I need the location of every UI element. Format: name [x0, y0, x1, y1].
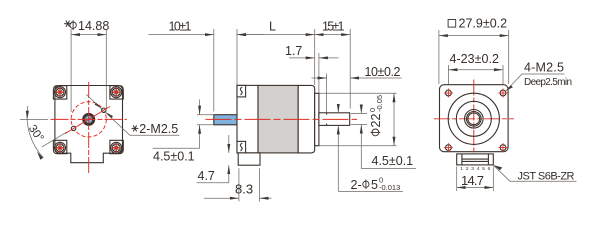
rear boss phi22 — [315, 93, 319, 145]
connector under flange (side view) — [238, 153, 260, 165]
dim 4-23 line — [448, 69, 503, 71]
screws (4x) — [55, 87, 66, 98]
arc arrowhead bottom — [37, 152, 43, 160]
svg-text:Deep2.5min: Deep2.5min — [524, 77, 572, 88]
svg-text:10±1: 10±1 — [169, 20, 192, 34]
dim 14.7 — [456, 167, 458, 192]
shaft blue circle — [85, 116, 93, 124]
red centerline middle — [206, 118, 358, 120]
screw top-right — [111, 87, 122, 98]
corner hole TL — [444, 89, 453, 98]
dim phi22 ext lines — [319, 92, 396, 94]
dim L (arrows inside) — [237, 34, 315, 36]
M2.5 hole lower left — [71, 126, 75, 130]
dim 4.7 vertical with outside arrows — [228, 135, 230, 153]
leader 4-M2.5 — [506, 74, 522, 91]
corner screw pocket BR — [110, 140, 123, 153]
black hole-line extension lower-left — [42, 132, 67, 147]
red hole centerline 31deg — [65, 107, 110, 134]
motor gray body — [258, 85, 298, 152]
label 2-phi5 0/-0.013 — [351, 176, 401, 193]
front shaft (blue) — [214, 115, 237, 125]
red centerline vertical right view — [473, 80, 475, 155]
svg-text:5: 5 — [371, 178, 378, 192]
dim 4-23 ext lines — [447, 65, 449, 89]
svg-text:JST S6B-ZR: JST S6B-ZR — [518, 170, 575, 182]
dim 10+-1 (arrows outside) — [149, 34, 214, 36]
leader line 2-M2.5 — [86, 94, 130, 135]
corner screw pocket BL — [53, 140, 66, 153]
svg-text:10±0.2: 10±0.2 — [365, 65, 401, 79]
top dimension extension lines — [213, 29, 215, 112]
angle reference horizontal line — [20, 118, 48, 120]
svg-text:4.5±0.1: 4.5±0.1 — [372, 154, 414, 168]
dim 2-phi5 leader — [337, 105, 339, 113]
dim 15+-1 (arrows inside) — [315, 34, 351, 36]
motor flange outline with connector protrusion — [55, 86, 123, 163]
dim phi22 vertical line inside arrows — [393, 93, 395, 145]
svg-text:L: L — [269, 20, 276, 34]
corner screw pocket TL — [53, 86, 66, 99]
leader arrowheads at hole — [95, 103, 102, 109]
svg-text:1.7: 1.7 — [285, 44, 302, 58]
svg-text:-0.05: -0.05 — [375, 95, 384, 112]
corner hole BL — [444, 143, 453, 152]
screw bottom-left — [55, 142, 66, 153]
svg-text:30°: 30° — [26, 123, 46, 144]
svg-text:8.3: 8.3 — [235, 182, 253, 197]
dim 8.3 connector width — [238, 168, 240, 201]
leader 4-M2.5 underline — [522, 73, 565, 75]
connector rear view — [457, 154, 494, 165]
arc arrowhead top — [26, 111, 29, 120]
svg-text:4-M2.5: 4-M2.5 — [524, 61, 564, 75]
shaft boss dark ring — [84, 114, 94, 124]
thread notch box top — [237, 85, 246, 97]
svg-text:2-: 2- — [351, 178, 362, 192]
center circles: phi22 boss — [448, 93, 499, 144]
svg-text:-0.013: -0.013 — [379, 183, 400, 192]
label *phi14.88 — [64, 19, 109, 33]
svg-text:4-23±0.2: 4-23±0.2 — [450, 52, 500, 66]
svg-text:123456: 123456 — [460, 166, 493, 172]
thread notch box bottom — [237, 141, 246, 153]
svg-text:27.9±0.2: 27.9±0.2 — [459, 17, 508, 31]
rear shaft — [319, 113, 350, 126]
red centerline horizontal — [51, 118, 127, 120]
dim 27.9 line — [439, 35, 509, 37]
svg-text:22: 22 — [369, 114, 383, 128]
svg-text:2-M2.5: 2-M2.5 — [139, 122, 178, 136]
rear end cap — [298, 85, 315, 152]
30 degree arc — [27, 106, 43, 158]
corner hole BR — [499, 143, 508, 152]
label JST S6B-ZR with leader — [493, 165, 576, 181]
corner screw pocket TR — [110, 86, 123, 99]
dim phi14.88 dimension line — [71, 29, 106, 112]
red bolt circle dashed phi14.88 — [71, 102, 106, 137]
label phi22 0/-0.05 rotated — [368, 95, 384, 136]
dim 4.5+-0.1 left: flat ext lines — [197, 114, 213, 116]
dim 27.9 ext lines — [438, 30, 440, 84]
shaft groove marks — [326, 113, 328, 115]
corner hole TR — [499, 89, 508, 98]
pilot circle phi14.88 — [456, 101, 491, 136]
svg-text:14.88: 14.88 — [78, 19, 109, 33]
inner circles — [465, 110, 484, 129]
rear square body — [440, 85, 509, 152]
front flange plate — [237, 85, 258, 152]
dim 10+-0.2 (arrows outside) — [312, 77, 327, 79]
label *2-M2.5 — [132, 125, 139, 131]
M2.5 hole upper right — [102, 108, 106, 112]
svg-text:4.7: 4.7 — [198, 169, 215, 183]
screw bottom-right — [111, 142, 122, 153]
dim 4.5 left vertical with outside arrows — [199, 100, 201, 115]
svg-text:15±1: 15±1 — [322, 20, 345, 34]
dim 4.5+-0.1 right: flat ext lines — [351, 113, 367, 115]
label square 27.9+-0.2 — [448, 20, 456, 28]
svg-text:4.5±0.1: 4.5±0.1 — [153, 150, 195, 164]
red centerline horizontal right view — [434, 118, 514, 120]
svg-text:14.7: 14.7 — [461, 173, 484, 188]
red centerline vertical — [88, 82, 90, 174]
dim 1.7 (arrows outside) — [289, 57, 315, 59]
